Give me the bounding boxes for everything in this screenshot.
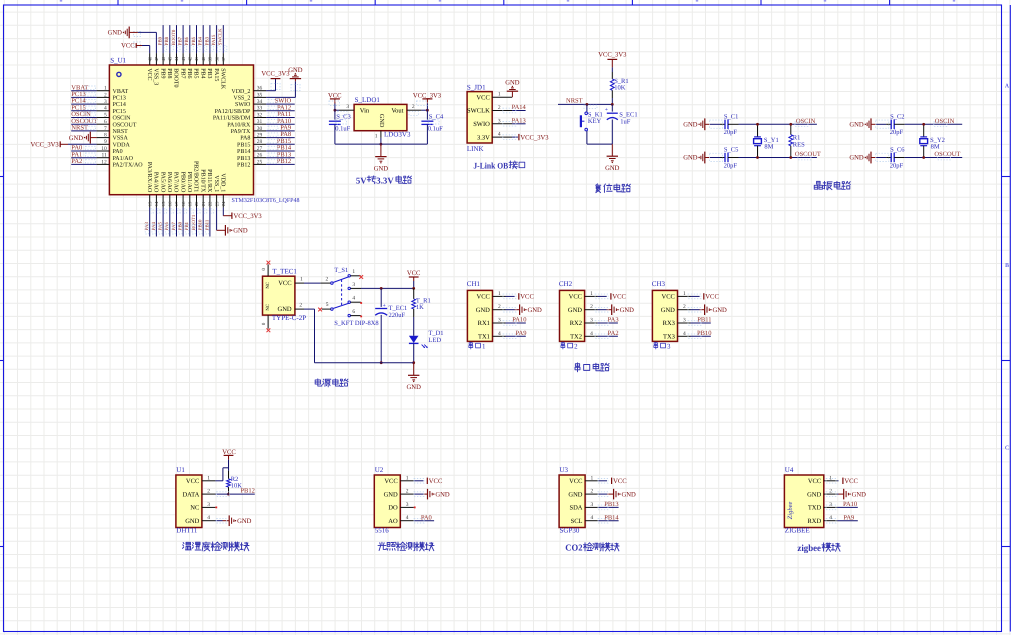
svg-text:OSCOUT: OSCOUT — [934, 151, 960, 158]
svg-text:5V: 5V — [356, 175, 367, 185]
svg-text:3: 3 — [498, 118, 501, 124]
svg-text:PA15: PA15 — [211, 34, 217, 45]
svg-text:PB12: PB12 — [277, 158, 291, 165]
svg-text:PB10/TX: PB10/TX — [199, 169, 205, 193]
svg-text:VCC: VCC — [569, 294, 582, 301]
svg-text:40: 40 — [201, 56, 206, 61]
svg-text:3: 3 — [667, 342, 671, 350]
svg-text:PB11: PB11 — [697, 317, 711, 324]
svg-text:NC: NC — [265, 304, 271, 311]
svg-text:J-Link OB: J-Link OB — [473, 160, 508, 170]
svg-text:GND: GND — [505, 80, 520, 87]
svg-text:Zigbee: Zigbee — [787, 502, 794, 520]
svg-text:VCC: VCC — [808, 478, 821, 485]
svg-text:U3: U3 — [560, 466, 569, 474]
svg-text:CH2: CH2 — [559, 280, 573, 288]
svg-text:PA10/RX: PA10/RX — [227, 122, 251, 128]
svg-text:T_EC1: T_EC1 — [389, 305, 408, 312]
svg-text:6: 6 — [352, 309, 355, 315]
svg-text:SGP30: SGP30 — [560, 527, 580, 535]
svg-text:PA5/AO: PA5/AO — [159, 172, 165, 193]
svg-text:PB2/BOOT1: PB2/BOOT1 — [193, 161, 199, 192]
svg-text:NRST: NRST — [71, 125, 88, 132]
svg-text:1K: 1K — [416, 304, 424, 311]
svg-text:GND: GND — [384, 491, 398, 498]
svg-text:PA9: PA9 — [843, 514, 854, 521]
svg-text:PA9/TX: PA9/TX — [231, 129, 251, 135]
svg-text:20pF: 20pF — [890, 162, 904, 169]
svg-text:PB6: PB6 — [184, 36, 190, 45]
svg-text:U4: U4 — [785, 466, 794, 474]
svg-text:GND: GND — [622, 491, 637, 498]
svg-text:1: 1 — [482, 342, 486, 350]
svg-text:PB12: PB12 — [240, 488, 254, 495]
svg-text:OSCIN: OSCIN — [935, 118, 955, 125]
svg-text:3: 3 — [590, 318, 593, 324]
svg-text:VSSA: VSSA — [113, 136, 129, 142]
svg-text:PA7/AO: PA7/AO — [173, 172, 179, 193]
svg-text:2: 2 — [326, 276, 329, 282]
svg-text:3: 3 — [406, 502, 409, 508]
svg-text:VCC_3V3: VCC_3V3 — [520, 134, 549, 141]
svg-text:25: 25 — [257, 159, 263, 165]
svg-text:PB8: PB8 — [164, 36, 170, 45]
svg-text:S_U1: S_U1 — [110, 56, 126, 64]
svg-text:PA1/AO: PA1/AO — [113, 156, 134, 162]
svg-text:DHT11: DHT11 — [176, 527, 198, 535]
svg-text:4: 4 — [590, 331, 593, 337]
svg-text:GND: GND — [435, 491, 450, 498]
svg-text:37: 37 — [221, 56, 226, 61]
svg-text:28: 28 — [257, 139, 263, 145]
svg-text:B: B — [1005, 263, 1009, 269]
svg-text:GND: GND — [852, 491, 867, 498]
svg-text:T_S1: T_S1 — [334, 267, 348, 274]
svg-text:ZIGBEE: ZIGBEE — [785, 527, 810, 535]
svg-text:GND: GND — [476, 307, 490, 314]
svg-text:CO2: CO2 — [565, 543, 583, 553]
svg-text:22: 22 — [208, 201, 213, 206]
svg-text:VCC_3V3: VCC_3V3 — [234, 213, 263, 220]
svg-text:PA4/AO: PA4/AO — [153, 172, 159, 193]
svg-text:14: 14 — [154, 201, 159, 206]
svg-text:1: 1 — [406, 475, 409, 481]
svg-text:U2: U2 — [375, 466, 384, 474]
svg-text:10K: 10K — [614, 85, 626, 92]
svg-text:47: 47 — [154, 56, 159, 61]
svg-text:GND: GND — [69, 135, 84, 142]
svg-text:S_C2: S_C2 — [890, 114, 904, 121]
svg-text:39: 39 — [208, 56, 213, 61]
svg-text:GND: GND — [278, 306, 292, 313]
svg-text:R1: R1 — [793, 134, 801, 141]
svg-text:46: 46 — [161, 56, 166, 61]
svg-text:PB5: PB5 — [191, 36, 197, 45]
svg-text:2: 2 — [574, 342, 578, 350]
svg-text:PB9: PB9 — [158, 36, 164, 45]
svg-text:42: 42 — [188, 56, 193, 61]
svg-text:GND: GND — [807, 491, 821, 498]
svg-text:SWCLK: SWCLK — [220, 68, 226, 90]
svg-text:VCC: VCC — [429, 478, 443, 485]
svg-text:TX3: TX3 — [663, 334, 675, 341]
svg-text:1uF: 1uF — [620, 118, 631, 125]
svg-text:S_KFT DIP-8X8: S_KFT DIP-8X8 — [334, 320, 378, 327]
svg-text:PA2/TX/AO: PA2/TX/AO — [113, 163, 144, 169]
svg-text:21: 21 — [201, 201, 206, 206]
svg-text:PB3: PB3 — [204, 36, 210, 45]
svg-text:23: 23 — [214, 201, 219, 206]
svg-text:PA12/USB/DP: PA12/USB/DP — [215, 109, 251, 115]
svg-text:GND: GND — [849, 122, 864, 129]
svg-text:13: 13 — [147, 201, 152, 206]
svg-text:GND: GND — [568, 307, 582, 314]
svg-text:8M: 8M — [931, 144, 940, 151]
svg-text:34: 34 — [257, 99, 263, 105]
svg-text:NC: NC — [265, 282, 271, 289]
svg-text:3: 3 — [207, 502, 210, 508]
svg-text:VCC_3V3: VCC_3V3 — [261, 71, 290, 78]
svg-text:20pF: 20pF — [890, 129, 904, 136]
svg-text:PB7: PB7 — [178, 36, 184, 45]
svg-text:PA6/AO: PA6/AO — [166, 172, 172, 193]
svg-text:3: 3 — [683, 318, 686, 324]
svg-text:VSS_3: VSS_3 — [153, 68, 159, 85]
svg-text:GND: GND — [713, 307, 728, 314]
svg-text:2: 2 — [498, 105, 501, 111]
svg-text:1: 1 — [300, 277, 303, 283]
svg-text:3: 3 — [346, 104, 349, 110]
svg-text:PB7: PB7 — [179, 68, 185, 78]
svg-text:45: 45 — [168, 56, 173, 61]
svg-text:VCC_3V3: VCC_3V3 — [30, 141, 59, 148]
svg-text:4: 4 — [406, 515, 409, 521]
svg-text:12: 12 — [101, 159, 107, 165]
svg-text:+: + — [605, 107, 608, 113]
svg-text:VCC: VCC — [844, 478, 858, 485]
svg-text:PA2: PA2 — [71, 158, 82, 165]
svg-text:4: 4 — [498, 132, 501, 138]
svg-text:1: 1 — [591, 475, 594, 481]
svg-text:33: 33 — [257, 106, 263, 112]
svg-text:GND: GND — [661, 307, 675, 314]
svg-text:PB14: PB14 — [604, 514, 619, 521]
svg-text:T_TEC1: T_TEC1 — [272, 267, 297, 275]
svg-text:10: 10 — [101, 146, 107, 152]
svg-text:VDDA: VDDA — [113, 142, 131, 148]
svg-text:4: 4 — [591, 515, 594, 521]
svg-text:PA10: PA10 — [512, 317, 526, 324]
svg-text:GND: GND — [233, 228, 248, 235]
svg-text:OSCIN: OSCIN — [113, 116, 132, 122]
svg-text:2: 2 — [412, 104, 415, 110]
svg-text:4: 4 — [352, 296, 355, 302]
svg-text:GND: GND — [288, 67, 303, 74]
svg-text:VCC: VCC — [384, 478, 397, 485]
svg-text:RES: RES — [793, 141, 805, 148]
svg-text:BOOT1: BOOT1 — [191, 214, 197, 230]
svg-text:+: + — [383, 303, 386, 309]
svg-text:PB9: PB9 — [159, 68, 165, 78]
svg-text:PB4: PB4 — [199, 68, 205, 78]
svg-text:31: 31 — [257, 119, 263, 125]
svg-text:BOOT0: BOOT0 — [173, 68, 179, 87]
svg-text:1: 1 — [375, 134, 378, 140]
svg-text:VCC: VCC — [146, 68, 152, 80]
svg-text:PC14: PC14 — [113, 102, 126, 108]
svg-text:1: 1 — [683, 291, 686, 297]
svg-text:3: 3 — [498, 318, 501, 324]
svg-text:3: 3 — [352, 282, 355, 288]
svg-text:VCC: VCC — [407, 270, 421, 277]
svg-text:24: 24 — [221, 201, 226, 206]
svg-text:RXD: RXD — [807, 518, 821, 525]
svg-text:NC: NC — [190, 505, 199, 512]
svg-text:VBAT: VBAT — [113, 89, 129, 95]
svg-text:1: 1 — [498, 291, 501, 297]
svg-text:S_C6: S_C6 — [890, 147, 905, 154]
svg-text:SDA: SDA — [569, 505, 582, 512]
svg-text:VCC: VCC — [477, 294, 490, 301]
svg-text:GND: GND — [683, 122, 698, 129]
svg-text:S_LDO1: S_LDO1 — [355, 96, 381, 104]
svg-text:1: 1 — [590, 291, 593, 297]
svg-text:SCL: SCL — [571, 518, 583, 525]
svg-text:NRST: NRST — [566, 98, 583, 105]
svg-text:VCC: VCC — [520, 294, 534, 301]
svg-text:27: 27 — [257, 146, 263, 152]
svg-text:17: 17 — [174, 201, 179, 206]
svg-text:RX1: RX1 — [478, 320, 490, 327]
svg-text:2: 2 — [590, 304, 593, 310]
svg-text:DO: DO — [388, 505, 398, 512]
svg-text:GND: GND — [407, 384, 422, 391]
svg-text:38: 38 — [214, 56, 219, 61]
svg-text:20pF: 20pF — [724, 129, 738, 136]
svg-text:2: 2 — [406, 489, 409, 495]
svg-text:VCC: VCC — [705, 294, 719, 301]
svg-text:GND: GND — [849, 155, 864, 162]
svg-text:PA3: PA3 — [608, 317, 619, 324]
svg-text:PB11/RX: PB11/RX — [206, 169, 212, 193]
svg-text:2: 2 — [104, 92, 107, 98]
svg-text:2: 2 — [207, 489, 210, 495]
svg-text:PA2: PA2 — [608, 330, 619, 337]
svg-text:OSCOUT: OSCOUT — [795, 151, 821, 158]
svg-text:16: 16 — [168, 201, 173, 206]
svg-text:LDO3V3: LDO3V3 — [384, 131, 411, 139]
svg-text:GND: GND — [185, 518, 199, 525]
svg-text:GND: GND — [568, 491, 582, 498]
svg-text:PB5: PB5 — [193, 68, 199, 78]
svg-text:TXD: TXD — [808, 505, 822, 512]
svg-text:VCC: VCC — [569, 478, 582, 485]
svg-text:9: 9 — [104, 139, 107, 145]
svg-text:PA15: PA15 — [213, 68, 219, 81]
svg-text:GND: GND — [605, 165, 620, 172]
svg-text:PA8: PA8 — [240, 136, 250, 142]
svg-text:TYPE-C-2P: TYPE-C-2P — [272, 314, 306, 322]
svg-text:VDD_2: VDD_2 — [231, 89, 250, 95]
svg-text:TX1: TX1 — [478, 334, 490, 341]
svg-text:LINK: LINK — [467, 145, 484, 153]
svg-text:AO: AO — [388, 518, 398, 525]
svg-text:PB8: PB8 — [166, 68, 172, 78]
svg-text:4: 4 — [498, 331, 501, 337]
svg-text:1: 1 — [104, 86, 107, 92]
svg-text:CH3: CH3 — [652, 280, 666, 288]
svg-text:S_JD1: S_JD1 — [467, 84, 486, 92]
svg-text:PA10: PA10 — [843, 501, 857, 508]
svg-text:Vin: Vin — [360, 108, 370, 115]
svg-text:SWIO: SWIO — [235, 102, 251, 108]
svg-text:RX3: RX3 — [663, 320, 675, 327]
svg-text:5: 5 — [104, 112, 107, 118]
svg-text:SWCLK: SWCLK — [218, 28, 224, 45]
svg-text:43: 43 — [181, 56, 186, 61]
svg-text:TX2: TX2 — [570, 334, 582, 341]
svg-text:19: 19 — [188, 201, 193, 206]
svg-text:PB13: PB13 — [604, 501, 618, 508]
svg-text:PA9: PA9 — [516, 330, 527, 337]
svg-text:PB0/AO: PB0/AO — [179, 172, 185, 193]
svg-text:41: 41 — [194, 56, 199, 61]
svg-text:PB10: PB10 — [697, 330, 711, 337]
svg-text:GND: GND — [374, 165, 389, 172]
svg-text:KEY: KEY — [588, 118, 602, 125]
svg-text:U1: U1 — [176, 466, 185, 474]
svg-text:PB15: PB15 — [237, 142, 250, 148]
svg-text:3.3V: 3.3V — [376, 175, 394, 185]
svg-text:S_C5: S_C5 — [724, 147, 738, 154]
svg-text:VSS_2: VSS_2 — [233, 96, 250, 102]
svg-text:220uF: 220uF — [389, 312, 406, 319]
svg-text:PB3: PB3 — [206, 68, 212, 78]
svg-text:PB6: PB6 — [186, 68, 192, 78]
svg-text:2: 2 — [591, 489, 594, 495]
svg-text:GND: GND — [683, 155, 698, 162]
svg-text:PB13: PB13 — [237, 156, 250, 162]
svg-text:PA3/RX/AO: PA3/RX/AO — [146, 162, 152, 193]
svg-text:15: 15 — [161, 201, 166, 206]
svg-text:5516: 5516 — [375, 527, 390, 535]
svg-text:1: 1 — [498, 92, 501, 98]
svg-text:GND: GND — [528, 307, 543, 314]
svg-text:VCC: VCC — [613, 478, 627, 485]
svg-text:6: 6 — [104, 119, 107, 125]
svg-text:4: 4 — [683, 331, 686, 337]
svg-text:4: 4 — [104, 106, 107, 112]
svg-text:OSCIN: OSCIN — [796, 118, 816, 125]
svg-text:0.1uF: 0.1uF — [335, 125, 350, 132]
svg-text:5: 5 — [326, 302, 329, 308]
svg-text:0.1uF: 0.1uF — [428, 125, 443, 132]
svg-text:26: 26 — [257, 153, 263, 159]
svg-text:VCC: VCC — [121, 43, 135, 50]
svg-text:PA13: PA13 — [512, 117, 526, 124]
svg-text:GND: GND — [237, 518, 252, 525]
svg-text:BOOT0: BOOT0 — [171, 29, 177, 45]
svg-text:GND: GND — [620, 307, 635, 314]
svg-text:32: 32 — [257, 112, 263, 118]
svg-text:29: 29 — [257, 133, 263, 139]
svg-text:RX2: RX2 — [570, 320, 582, 327]
svg-text:48: 48 — [147, 56, 152, 61]
svg-text:S_C1: S_C1 — [724, 114, 738, 121]
svg-text:1: 1 — [352, 269, 355, 275]
svg-text:GND: GND — [378, 114, 385, 128]
svg-text:STM32F103C8T6_LQFP48: STM32F103C8T6_LQFP48 — [232, 198, 300, 204]
svg-text:PA14: PA14 — [512, 104, 527, 111]
svg-text:PB12: PB12 — [237, 163, 250, 169]
svg-text:20: 20 — [194, 201, 199, 206]
svg-text:PC13: PC13 — [113, 96, 126, 102]
svg-text:PC15: PC15 — [113, 109, 126, 115]
svg-text:S_C4: S_C4 — [429, 114, 444, 121]
svg-text:30: 30 — [257, 126, 263, 132]
svg-text:S_C3: S_C3 — [336, 114, 350, 121]
svg-text:18: 18 — [181, 201, 186, 206]
svg-text:NRST: NRST — [113, 129, 129, 135]
svg-text:8M: 8M — [764, 144, 773, 151]
svg-text:VCC: VCC — [612, 294, 626, 301]
svg-text:20pF: 20pF — [724, 162, 738, 169]
svg-text:PA11/USB/DM: PA11/USB/DM — [213, 116, 251, 122]
svg-text:8: 8 — [104, 133, 107, 139]
svg-text:2: 2 — [299, 303, 302, 309]
svg-text:3: 3 — [591, 502, 594, 508]
svg-text:VCC: VCC — [186, 478, 199, 485]
svg-text:CH1: CH1 — [467, 280, 481, 288]
svg-text:SWIO: SWIO — [473, 121, 490, 128]
svg-text:Vout: Vout — [391, 108, 403, 115]
svg-text:VCC_3V3: VCC_3V3 — [598, 52, 627, 59]
svg-text:PA0: PA0 — [421, 514, 432, 521]
svg-text:VCC: VCC — [476, 94, 489, 101]
svg-text:VSS_1: VSS_1 — [213, 175, 219, 192]
svg-text:4: 4 — [207, 515, 210, 521]
svg-text:VCC: VCC — [278, 280, 291, 287]
svg-text:1: 1 — [207, 475, 210, 481]
svg-text:11: 11 — [102, 153, 108, 159]
svg-text:C: C — [1005, 446, 1009, 452]
svg-text:44: 44 — [174, 56, 179, 61]
svg-text:7: 7 — [104, 126, 107, 132]
svg-text:PA0: PA0 — [113, 149, 123, 155]
svg-text:SWCLK: SWCLK — [467, 108, 490, 115]
svg-text:DATA: DATA — [182, 491, 199, 498]
svg-text:2: 2 — [683, 304, 686, 310]
svg-text:LED: LED — [428, 337, 441, 344]
svg-text:OSCOUT: OSCOUT — [113, 122, 137, 128]
svg-text:GND: GND — [108, 30, 123, 37]
svg-text:3: 3 — [104, 99, 107, 105]
svg-text:35: 35 — [257, 92, 263, 98]
svg-text:VDD_1: VDD_1 — [220, 173, 226, 192]
svg-text:2: 2 — [498, 304, 501, 310]
svg-text:VCC: VCC — [662, 294, 675, 301]
svg-text:3.3V: 3.3V — [477, 134, 490, 141]
svg-text:PB1/AO: PB1/AO — [186, 172, 192, 193]
svg-text:zigbee: zigbee — [797, 544, 821, 554]
svg-text:36: 36 — [257, 86, 263, 92]
svg-text:PB4: PB4 — [198, 36, 204, 45]
svg-text:PB14: PB14 — [237, 149, 250, 155]
